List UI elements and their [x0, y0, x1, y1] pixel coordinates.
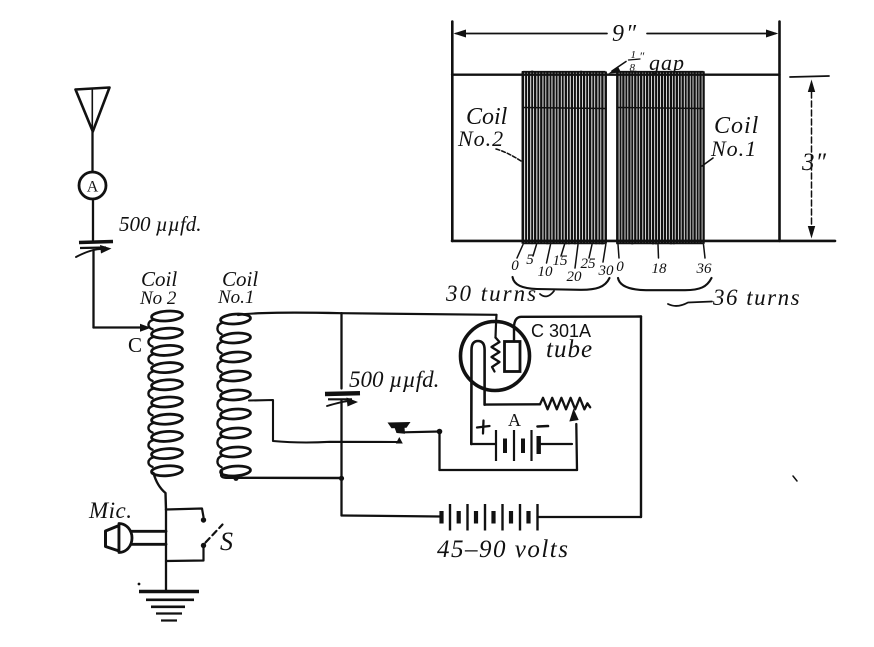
svg-text:C: C	[128, 333, 142, 357]
svg-text:25: 25	[581, 256, 597, 272]
svg-text:A: A	[87, 179, 99, 196]
svg-text:A: A	[508, 410, 521, 430]
svg-text:0: 0	[616, 259, 624, 275]
svg-text:15: 15	[553, 253, 569, 269]
svg-text:No.1: No.1	[217, 287, 254, 308]
svg-text:30: 30	[598, 263, 615, 279]
svg-text:3″: 3″	[801, 149, 827, 176]
svg-text:36 turns: 36 turns	[712, 285, 801, 310]
svg-text:45–90 volts: 45–90 volts	[437, 536, 569, 563]
svg-text:No.2: No.2	[457, 126, 504, 151]
svg-text:36: 36	[696, 261, 713, 277]
svg-text:S: S	[220, 527, 233, 556]
svg-text:0: 0	[511, 258, 519, 274]
svg-text:30 turns: 30 turns	[445, 281, 538, 306]
svg-text:10: 10	[538, 264, 554, 280]
svg-text:18: 18	[652, 261, 668, 277]
svg-text:9″: 9″	[612, 21, 638, 47]
svg-text:No.1: No.1	[710, 136, 757, 161]
svg-text:500 µµfd.: 500 µµfd.	[349, 367, 439, 392]
svg-text:No 2: No 2	[139, 288, 177, 309]
svg-text:5: 5	[526, 252, 534, 268]
svg-text:″: ″	[640, 49, 645, 63]
svg-text:tube: tube	[546, 336, 593, 363]
svg-text:500 µµfd.: 500 µµfd.	[119, 212, 202, 236]
svg-text:Mic.: Mic.	[88, 498, 133, 523]
